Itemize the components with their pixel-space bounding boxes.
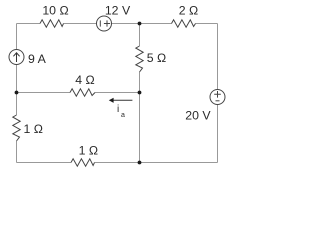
V2 plus sign [214, 91, 221, 98]
wire center branch between 5ohm and node C [139, 72, 141, 93]
wire center branch upper (node A to 5ohm) [139, 24, 141, 47]
resistor R 10ohm [40, 20, 64, 27]
svg-text:20 V: 20 V [185, 108, 211, 122]
resistor R 1ohm bottom [71, 159, 95, 166]
resistor R 1ohm left vertical [13, 115, 20, 141]
current arrow i_a [113, 99, 132, 101]
svg-text:1 Ω: 1 Ω [79, 144, 98, 158]
wire top-left horizontal segment [17, 23, 41, 25]
wire top between 10ohm and 12V source [64, 23, 97, 25]
svg-text:a: a [121, 112, 125, 119]
svg-text:2 Ω: 2 Ω [179, 3, 198, 17]
svg-text:4 Ω: 4 Ω [75, 73, 94, 87]
wire top between 12V source and node A [112, 23, 140, 25]
wire left rail upper (corner to 9A source) [16, 24, 18, 50]
svg-text:9 A: 9 A [28, 52, 47, 66]
V1 minus terminal bar [99, 20, 101, 26]
V1 plus sign [104, 20, 110, 26]
wire bottom left of 1ohm [17, 162, 72, 164]
svg-text:12 V: 12 V [105, 3, 131, 17]
wire middle horizontal right of 4ohm [95, 92, 140, 94]
node A junction dot [138, 22, 142, 26]
resistor R 5ohm vertical [136, 46, 143, 72]
voltage source V2 20V [210, 90, 225, 105]
wire top between node A and 2ohm [140, 23, 172, 25]
V2 minus bar [216, 100, 220, 102]
wire left rail between node B and 1ohm [16, 93, 18, 116]
wire bottom right of 1ohm [95, 162, 218, 164]
wire top-right segment to corner [196, 23, 218, 25]
svg-text:5 Ω: 5 Ω [147, 51, 166, 65]
svg-text:10 Ω: 10 Ω [42, 3, 68, 17]
resistor R 2ohm [172, 20, 196, 27]
resistor R 4ohm [70, 89, 95, 96]
wire center branch lower (node C to node D) [139, 93, 141, 163]
wire middle horizontal left of 4ohm [17, 92, 71, 94]
wire right rail lower (20V source to bottom corner) [217, 105, 219, 163]
wire left rail between 9A source and node B [16, 65, 18, 93]
voltage source V1 12V [97, 16, 112, 31]
wire left rail lower (1ohm to bottom corner) [16, 141, 18, 163]
wire right rail upper (corner to 20V source) [217, 24, 219, 90]
svg-text:i: i [117, 104, 119, 115]
I1 arrow up [13, 53, 19, 62]
node B junction dot [15, 91, 19, 95]
node C junction dot [138, 91, 142, 95]
node D junction dot [138, 161, 142, 165]
current source I1 9A [9, 50, 24, 65]
svg-text:1 Ω: 1 Ω [24, 122, 43, 136]
